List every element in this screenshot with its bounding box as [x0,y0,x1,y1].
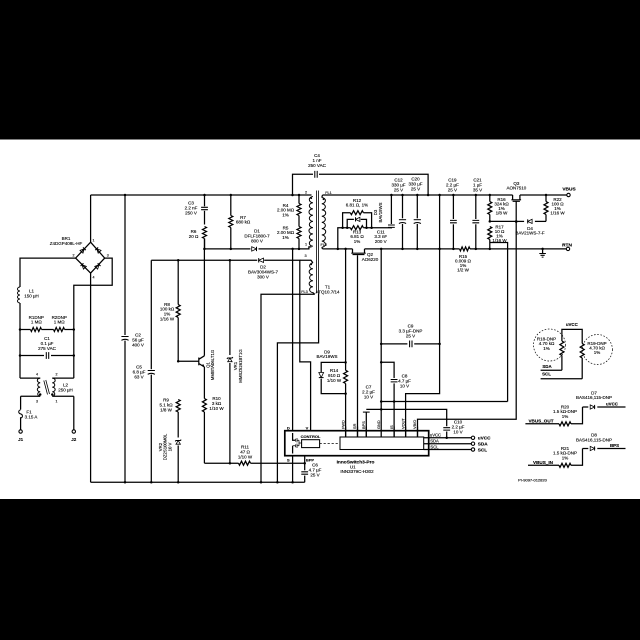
svg-text:200 V: 200 V [375,239,387,244]
svg-text:VBUS_IN: VBUS_IN [533,460,554,465]
transistor Q3 [507,181,527,222]
IC U1 pin SR [352,423,357,437]
IC U1 pin VB/O [412,420,417,437]
IC U1 pin IS [389,425,394,437]
fuse F1 [19,410,38,420]
svg-text:3.15 A: 3.15 A [25,415,38,420]
resistor R5 [277,216,301,251]
node uVCC bracket [562,322,582,343]
svg-text:1%: 1% [562,455,569,460]
wire L2 left down [20,396,22,409]
svg-text:AON7510: AON7510 [507,186,527,191]
resistor R4 [277,194,301,218]
svg-text:1/16 W: 1/16 W [160,317,175,322]
wire BPS node [380,400,508,403]
svg-text:1%: 1% [594,350,601,355]
wire FWD line [344,248,347,437]
svg-text:VB/O: VB/O [412,420,417,429]
svg-text:250 µH: 250 µH [58,388,73,393]
resistor R14 [327,368,348,384]
svg-text:25 V: 25 V [406,333,415,338]
terminal uVCC [471,436,491,441]
wire secondary VBUS rail [323,194,567,196]
capacitor C19 [446,178,459,251]
svg-text:uVCC: uVCC [606,401,619,406]
capacitor C5 [133,260,155,483]
top letterbox band [0,0,640,140]
IC U1 outline [285,431,429,456]
wire bias winding return [260,293,315,484]
wire primary return rail [91,481,305,483]
svg-text:SDA: SDA [478,442,489,447]
net SCL stub [541,371,583,378]
IC U1 pin SCL [424,445,472,450]
diode D7 [576,390,625,409]
svg-text:2: 2 [73,254,75,258]
resistor R15 shunt [455,247,472,273]
svg-text:GND: GND [376,420,381,429]
terminal SCL [471,447,487,452]
svg-text:FWD: FWD [340,420,345,429]
IC U1 pin uVCC [424,432,472,439]
capacitor C11 [374,194,394,244]
transistor Q2 [351,249,378,262]
net VBUS_IN [528,460,559,466]
svg-text:20 Ω: 20 Ω [189,234,199,239]
svg-text:400 V: 400 V [132,342,144,347]
diode D4 [515,219,546,235]
svg-text:250 VAC: 250 VAC [308,163,326,168]
IC U1 internal fet [293,433,302,454]
svg-text:SCL: SCL [478,447,488,452]
resistor R9 [159,398,180,413]
svg-text:FL3: FL3 [301,290,308,294]
svg-text:J1: J1 [18,437,24,442]
svg-text:PI-9097-012820: PI-9097-012820 [518,478,547,483]
svg-text:V: V [306,425,309,430]
resistor R1DNP [29,315,44,332]
capacitor C9 [380,324,440,348]
zener VR1 [227,260,243,463]
svg-text:VBUS: VBUS [562,186,576,192]
svg-text:1/8 W: 1/8 W [496,211,509,216]
wire R16 R17 node [489,220,518,223]
wire sense from R17 [490,243,508,402]
svg-text:1/2 W: 1/2 W [457,268,470,273]
svg-text:25 V: 25 V [310,472,319,477]
resistor R19-DNP [580,335,612,379]
svg-text:1/8 W: 1/8 W [160,407,173,412]
svg-text:275 VAC: 275 VAC [38,346,56,351]
svg-text:BAV19WS: BAV19WS [317,354,338,359]
svg-text:BPS: BPS [610,443,619,448]
svg-text:25 V: 25 V [448,187,457,192]
svg-text:4: 4 [93,276,95,280]
wire bridge AC left [20,258,76,287]
transformer T1 secondary [321,191,332,249]
svg-text:1 MΩ: 1 MΩ [31,320,43,325]
svg-text:Z4DGP408L-HF: Z4DGP408L-HF [50,241,83,246]
choke L2 [20,373,74,404]
node bridge top wire [90,195,92,242]
svg-text:CONTROL: CONTROL [301,434,321,439]
wire L1 to filter [19,303,21,378]
svg-text:35 V: 35 V [473,187,482,192]
terminal J2 [71,430,77,442]
svg-text:250 V: 250 V [185,210,197,215]
net SDA stub [541,364,562,370]
svg-text:10 V: 10 V [453,429,462,434]
svg-text:uVCC: uVCC [478,436,491,441]
svg-text:BAS416,115-DNP: BAS416,115-DNP [576,437,612,442]
diode D2 [248,258,278,279]
transformer T1 bias winding [301,254,340,294]
resistor R17 [488,224,508,250]
resistor R21 [553,446,583,467]
resistor R6 [189,227,207,249]
svg-text:10 V: 10 V [168,442,173,451]
terminal SDA [471,442,488,447]
IC U1 pin GND [376,420,381,437]
svg-text:1%: 1% [543,346,550,351]
resistor R20 [553,405,583,426]
wire L2 right down to J2 [73,396,75,430]
wire bridge bottom to return rail [90,273,92,482]
svg-text:SCL: SCL [430,445,439,450]
wire shield to primary return [276,294,318,484]
capacitor C12 [391,178,406,251]
capacitor C6 [301,463,321,483]
diode D3 [347,202,383,227]
svg-text:RTN: RTN [562,242,572,248]
wire R1 R2 row [19,328,75,331]
svg-text:1%: 1% [282,235,289,240]
IC U1 pin S [287,456,294,484]
capacitor C4 [291,153,429,196]
resistor R2DNP [52,315,67,332]
resistor R8 [160,260,180,361]
wire V pin from bias [300,262,311,427]
wire secondary ground rail [323,248,567,250]
resistor R18-DNP [534,329,566,370]
svg-text:SDA: SDA [542,364,552,369]
IC U1 labels [337,459,375,474]
wire primary DC+ rail [91,194,312,196]
resistor R11 [204,445,306,466]
wire D pin to drain [291,248,294,427]
wire Q1 collector [203,248,206,356]
svg-text:10 V: 10 V [364,394,373,399]
wire GND pin line [380,248,383,427]
svg-text:1/10 W: 1/10 W [209,406,224,411]
svg-text:300 V: 300 V [257,274,269,279]
wire VOUT sense [406,194,441,437]
svg-text:IS: IS [389,425,394,429]
terminal RTN [562,242,572,250]
resistor R13 [350,226,364,244]
resistor R12 [343,198,372,228]
svg-text:1: 1 [93,239,95,243]
terminal VBUS [562,186,576,196]
svg-text:D: D [287,425,290,430]
capacitor C1 [19,336,75,359]
transformer T1 core [317,191,319,294]
diode D1 [244,229,270,252]
svg-text:1/16 W: 1/16 W [550,211,565,216]
capacitor C21 [472,178,482,251]
svg-text:VOUT: VOUT [400,418,405,429]
svg-text:SCL: SCL [542,371,551,376]
wire clamp rail left end [204,239,206,249]
IC U1 pin V [306,425,311,430]
drawing number [518,478,547,483]
svg-text:25 V: 25 V [394,187,403,192]
svg-text:AO6220: AO6220 [362,257,379,262]
wire SR gate line [357,258,359,438]
svg-text:63 V: 63 V [134,374,143,379]
svg-text:BAV19WS: BAV19WS [378,202,383,222]
svg-text:SR: SR [352,423,357,429]
svg-text:1%: 1% [354,239,361,244]
capacitor C2 [121,194,144,484]
net VBUS_OUT [525,418,559,424]
svg-text:SDA: SDA [430,439,439,444]
svg-text:1%: 1% [562,414,569,419]
svg-text:MMSZ5261BT1G: MMSZ5261BT1G [238,349,243,383]
svg-text:MMBTA06LT1G: MMBTA06LT1G [210,349,215,380]
wire primary clamp return rail [205,247,312,249]
capacitor C10 [366,409,464,437]
svg-text:25 V: 25 V [411,186,420,191]
svg-text:6.81 Ω, 1%: 6.81 Ω, 1% [346,203,368,208]
svg-text:3: 3 [36,400,38,404]
capacitor C20 [408,177,422,251]
svg-text:INN3379C-H302: INN3379C-H302 [340,469,374,474]
svg-text:BPP: BPP [306,458,315,463]
svg-text:BAS416,115-DNP: BAS416,115-DNP [576,395,612,400]
svg-text:800 V: 800 V [251,238,263,243]
IC U1 dashed link [320,443,340,445]
IC U1 pin FWD [340,420,345,437]
IC U1 pin D [287,425,293,430]
bridge rectifier BR1 [50,236,109,280]
svg-text:1: 1 [56,400,58,404]
capacitor C7 [362,385,375,438]
svg-text:2: 2 [56,373,58,377]
zener VR2 [158,412,181,484]
transformer T1 primary [305,191,313,247]
svg-text:FL2: FL2 [321,243,328,247]
ground symbol [539,248,546,257]
svg-text:4: 4 [36,373,38,377]
svg-text:uVCC: uVCC [430,432,441,437]
svg-text:1/10 W: 1/10 W [238,454,253,459]
svg-text:680 kΩ: 680 kΩ [236,220,251,225]
svg-text:S: S [287,458,290,463]
wire bridge AC right [74,258,112,378]
transistor Q1 [177,349,215,380]
wire IS pin line [393,402,395,438]
svg-text:2: 2 [305,191,307,195]
svg-text:1 MΩ: 1 MΩ [54,320,66,325]
IC U1 pin SDA [424,439,472,444]
svg-text:3: 3 [304,254,306,258]
svg-text:BPS: BPS [361,421,366,429]
svg-text:3: 3 [107,254,109,258]
svg-text:1: 1 [305,242,307,246]
IC U1 pin BPP [305,456,315,464]
bottom letterbox band [0,499,640,640]
inductor L1 [18,287,39,303]
svg-text:VBUS_OUT: VBUS_OUT [528,418,553,423]
terminal J1 [18,430,24,442]
svg-text:1/10 W: 1/10 W [327,378,342,383]
wire bias rectifier net [151,259,313,263]
svg-text:uVCC: uVCC [566,322,579,327]
IC U1 pin BPS [361,421,366,437]
wire Q1 emitter [203,367,205,399]
resistor R22 [544,194,565,222]
capacitor C8 [381,362,411,401]
IC U1 control box [301,434,321,448]
svg-text:1%: 1% [282,213,289,218]
diode D8 [576,433,625,451]
capacitor C3 [185,194,208,225]
IC U1 pin VOUT [400,418,405,437]
svg-text:150 µH: 150 µH [24,293,39,298]
wire clamp bottom [337,226,392,250]
svg-text:FL1: FL1 [325,191,332,195]
wire F1 to J1 [20,417,22,430]
diode D9 [317,349,346,393]
IC U1 secondary box [340,437,424,450]
resistor R10 [202,396,224,463]
svg-text:BAV21WS-7-F: BAV21WS-7-F [515,231,544,236]
wire VB/O line [418,220,518,437]
resistor R7 [229,194,251,250]
svg-text:10 V: 10 V [400,383,409,388]
svg-text:J2: J2 [71,437,77,442]
resistor R16 [488,194,510,222]
